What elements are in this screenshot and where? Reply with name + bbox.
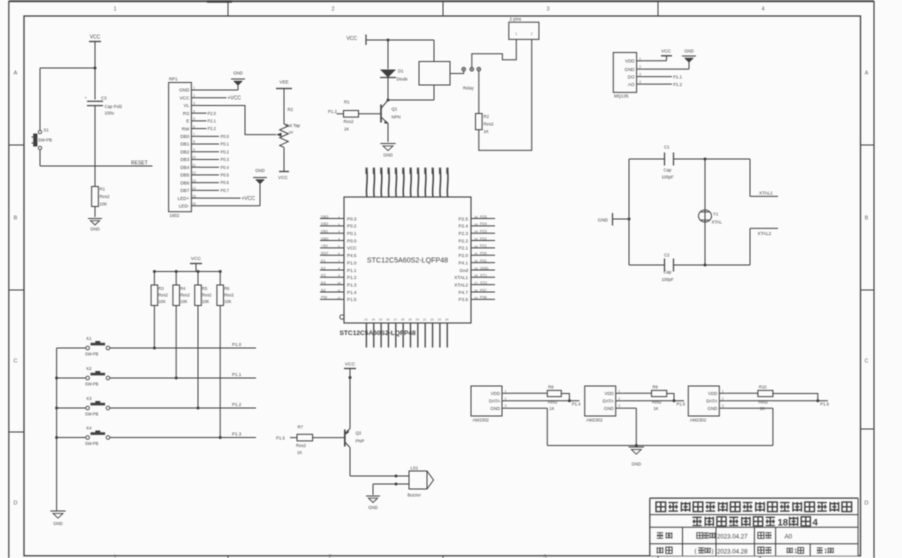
svg-text:PW: PW [321,296,328,300]
svg-text:Res2: Res2 [158,293,168,298]
left margin zone ticks [9,145,24,432]
ground (crystal) [598,213,631,226]
wire VDD to R9 [623,392,652,394]
svg-text:19: 19 [408,318,412,322]
svg-text:DB6: DB6 [180,180,189,185]
ground (LED-) [200,168,267,206]
svg-text:1: 1 [113,7,116,13]
pin XTAL1 (MCU right) [454,274,495,281]
net label P1.2 (MQ135 AO) [643,82,682,87]
wire GND drop 2 [623,408,637,445]
zone number 1 top [113,7,116,13]
pin P0.1 (MCU left) [320,230,357,237]
pin P1.1 (MCU left) [320,266,357,273]
svg-text:16: 16 [192,202,196,206]
svg-text:MQ135: MQ135 [614,94,629,99]
pin P2.0 (MCU right) [459,252,495,258]
svg-text:2: 2 [505,397,507,401]
svg-text:7: 7 [338,259,340,263]
pin top 39 (MCU) [380,168,382,198]
switch K4 SW-PB [57,426,110,447]
svg-text:1602: 1602 [170,213,180,218]
wire key left bus [55,348,58,511]
power VCC (potentiometer bottom) [278,147,289,180]
node collector junction [387,99,390,102]
zone letter C left [14,359,18,365]
svg-text:8: 8 [193,140,195,144]
svg-text:+VCC: +VCC [242,196,256,202]
svg-text:Pot Tap: Pot Tap [286,123,301,128]
ground (AM2302 rail) [629,447,644,467]
zone number 2 bottom [328,555,331,558]
svg-text:6: 6 [338,252,340,256]
cell qty label [758,547,772,553]
svg-text:SW-PB: SW-PB [85,352,99,357]
zone number 1 bottom [113,555,116,558]
svg-text:VCC: VCC [180,95,190,100]
switch S1 SW-PB [32,128,53,150]
pin 1 VDD (AM2302 3) [708,389,726,396]
pin 3 GND (AM2302 1) [490,404,509,411]
svg-text:K3: K3 [87,396,93,401]
svg-text:R4: R4 [180,286,186,291]
pin 2 DATA (AM2302 1) [489,397,509,404]
svg-text:P1.5: P1.5 [677,402,686,407]
svg-text:21: 21 [423,318,427,322]
net label P1.5 [677,402,686,407]
title block column dividers [683,527,811,556]
pin 13 DB6 (LCD header) [180,179,200,186]
svg-text:A: A [865,71,869,77]
svg-text:STC12C5A60S2-LQFP48: STC12C5A60S2-LQFP48 [340,330,417,337]
svg-text:RESET: RESET [131,161,148,167]
svg-text:P0.2: P0.2 [221,149,230,154]
svg-text:29: 29 [474,266,478,270]
net label P1.1 [232,372,242,377]
pin P2.1 (MCU right) [459,244,495,251]
svg-text:3: 3 [639,73,641,77]
cell drawn-by label [657,532,672,538]
svg-text:GND: GND [490,406,500,411]
svg-text:9: 9 [193,148,195,152]
svg-text:1: 1 [722,389,724,393]
svg-text:+VCC: +VCC [228,96,242,102]
ground (reset circuit) [88,219,102,232]
svg-text:Buzzer: Buzzer [408,493,422,498]
svg-text:NPN: NPN [392,115,401,120]
relay coil K1 [388,40,450,100]
net label P0.2 [200,149,230,154]
svg-text:DB4: DB4 [180,165,189,170]
svg-text:Res2: Res2 [344,119,355,124]
svg-text:P1.4: P1.4 [572,402,581,407]
svg-text:1K: 1K [297,450,302,455]
ground (MQ135) [643,49,696,70]
pin P4.7 (MCU right) [459,288,495,295]
cell checked-by label [657,547,672,553]
capacitor C2 Cap 100pF [629,253,750,283]
cell size label [758,532,772,538]
pin 1 VDD (MQ135) [625,57,643,64]
svg-text:P0.4: P0.4 [221,165,230,170]
pin P1.4 (MCU left) [320,288,357,295]
svg-text:SW-PB: SW-PB [85,382,99,387]
wire AM2302 ground rail [547,444,773,447]
pin XTAL2 (MCU right) [454,281,495,288]
svg-text:VEE: VEE [279,80,288,85]
pin 12 DB5 (LCD header) [180,171,200,178]
pin bottom 19 (MCU) [408,318,412,348]
net label P2.1 [200,118,217,123]
resistor R4 Res2 10K [173,285,191,306]
pin P1.5 (MCU left) [320,296,357,303]
svg-text:Y1: Y1 [713,212,719,217]
zone letter A right [865,71,869,77]
pin Gnd (MCU right) [459,266,495,273]
pin top 38 (MCU) [373,168,375,198]
svg-text:6: 6 [193,125,195,129]
svg-text:RW: RW [182,126,190,131]
svg-text:SW-PB: SW-PB [38,138,52,143]
svg-text:P2.1: P2.1 [208,118,217,123]
svg-text:E: E [186,119,189,124]
pin 3 VL (LCD header) [184,102,200,109]
right margin zone ticks [861,145,875,429]
svg-text:100pF: 100pF [662,175,675,180]
svg-text:GND: GND [90,227,100,232]
wire crystal loop left [628,159,630,265]
zone number 4 bottom [758,555,761,558]
svg-text:XTAL: XTAL [712,220,723,225]
svg-text:P41: P41 [480,259,487,263]
zone letter B left [14,216,18,222]
pin top 40 (MCU) [387,168,389,198]
pin bottom 14 (MCU) [372,318,376,348]
svg-text:XTAL1: XTAL1 [759,191,773,196]
svg-text:Cap: Cap [664,270,672,275]
svg-text:8: 8 [338,266,340,270]
svg-text:10K: 10K [100,202,108,207]
wire buzzer pin2 to ground [373,483,409,496]
svg-text:1K: 1K [289,130,294,135]
node relay VCC junction [387,39,390,42]
pin P2.2 (MCU right) [459,237,495,244]
wire R6 to key row [219,306,222,440]
svg-text:C1: C1 [664,145,670,150]
bottom margin zone ticks [228,556,658,558]
svg-text:R9: R9 [653,384,659,389]
svg-text:10K: 10K [224,299,232,304]
zone number 3 bottom [543,555,546,558]
net label P0.6 [200,180,230,185]
svg-text:R3: R3 [158,286,164,291]
wire DATA net 1 [509,400,579,402]
pin 11 DB4 (LCD header) [180,163,200,170]
svg-text:PNP: PNP [356,439,365,444]
zone letter D left [14,501,18,507]
zone number 3 top [546,7,549,13]
svg-text:P2.2: P2.2 [459,238,469,243]
svg-text:4: 4 [338,237,340,241]
svg-text:DB1: DB1 [321,230,328,234]
pin 3 DO (MQ135) [628,73,643,80]
resistor R10 Res2 [758,384,773,411]
svg-text:AM2302: AM2302 [473,418,490,423]
svg-text:S1: S1 [44,128,50,133]
svg-text:XTAL2: XTAL2 [758,231,772,236]
svg-text:P2.4: P2.4 [459,224,469,229]
svg-text:P1.5: P1.5 [276,435,285,440]
svg-text:GND: GND [632,462,642,467]
svg-text:GND: GND [684,49,694,54]
svg-text:14: 14 [372,318,376,322]
svg-text:Res2: Res2 [484,122,495,127]
svg-text:XT1: XT1 [480,274,487,278]
pin P0.3 (MCU left) [320,215,357,222]
net label XTAL1 [750,159,778,196]
svg-text:Q2: Q2 [356,431,362,436]
svg-text:VCC: VCC [346,36,357,42]
svg-text:XT2: XT2 [480,281,487,285]
power VCC (reset circuit) [89,35,101,69]
cell date 2023.04.27 [717,534,748,541]
svg-text:Relay: Relay [463,86,475,91]
pin P3.6 (MCU right) [459,296,495,303]
pin bottom 24 (MCU) [445,318,449,348]
svg-text:GND: GND [598,218,609,223]
svg-text:GND: GND [604,406,614,411]
svg-text:+5V: +5V [321,244,328,248]
pin P2.5 (MCU right) [459,215,495,222]
pin bottom 22 (MCU) [430,318,434,348]
svg-text:P2.3: P2.3 [459,231,469,236]
svg-text:1K: 1K [484,129,489,134]
svg-text:17: 17 [394,318,398,322]
pin 6 RW (LCD header) [182,125,200,132]
svg-text:1: 1 [515,32,517,36]
svg-text:R2: R2 [484,114,490,119]
label STC12C5A60S2-LQFP48 (bottom) [340,330,417,337]
svg-text:VDD: VDD [625,59,635,64]
wire key row K4 [110,437,256,439]
svg-text:Res2: Res2 [296,443,307,448]
svg-text:R2: R2 [288,107,294,112]
pin 1 VDD (AM2302 1) [491,389,509,396]
svg-text:27: 27 [474,281,478,285]
potentiometer R2 Pot Tap [276,107,301,147]
svg-text:A: A [14,71,18,77]
svg-text:2: 2 [618,397,620,401]
svg-text:DATA: DATA [706,399,717,404]
ground (Q1 emitter) [380,144,395,158]
svg-text:3: 3 [193,102,195,106]
svg-text:15: 15 [379,318,383,322]
wire +VCC (LED+) [200,196,255,202]
svg-text:DB3: DB3 [180,157,189,162]
svg-text:Q1: Q1 [392,107,398,112]
svg-text:VCC: VCC [191,256,202,262]
svg-text:P2.5: P2.5 [459,216,469,221]
svg-text:D1: D1 [398,69,404,74]
net label P0.5 [200,173,230,178]
svg-text:P0.0: P0.0 [347,238,357,243]
svg-text:4: 4 [813,518,819,529]
svg-text:R10: R10 [759,384,767,389]
power VCC (MQ135) [643,49,672,61]
wire contact to resistor R2 [478,71,480,114]
transistor Q2 PNP [345,429,365,477]
svg-text:P1.1: P1.1 [673,74,682,79]
wire DATA net 3 [726,400,828,402]
svg-text:P0.0: P0.0 [221,134,230,139]
wire coil to contact [450,71,464,74]
svg-text:36: 36 [474,215,478,219]
svg-text:11: 11 [337,288,340,292]
wire key row K1 [110,347,256,349]
svg-text:P1.2: P1.2 [232,402,242,407]
pin 7 DB0 (LCD header) [180,133,200,140]
svg-text:4: 4 [761,7,764,13]
pin 14 DB7 (LCD header) [180,187,200,194]
pin top 43 (MCU) [410,168,412,198]
net label P1.2 (relay) [328,109,337,114]
svg-text:Cap: Cap [664,168,672,173]
svg-text:VDD: VDD [604,391,613,396]
svg-text:Cap Pol2: Cap Pol2 [105,104,123,109]
switch K3 SW-PB [57,396,110,417]
svg-text:B: B [865,216,869,222]
svg-text:RS: RS [183,111,189,116]
svg-text:GND: GND [708,406,718,411]
svg-text:10K: 10K [202,299,210,304]
svg-text:P25: P25 [480,215,487,219]
svg-text:STC12C5A60S2-LQFP48: STC12C5A60S2-LQFP48 [367,257,448,265]
pin top 44 (MCU) [417,168,419,198]
svg-text:3: 3 [505,404,507,408]
svg-text:P2.0: P2.0 [459,253,469,258]
svg-text:14: 14 [192,187,196,191]
svg-text:DO: DO [628,74,635,79]
svg-text:15: 15 [192,194,196,198]
svg-text:DB1: DB1 [180,142,189,147]
switch K1 SW-PB [57,336,110,357]
ground (key bus) [50,511,65,526]
svg-text:3: 3 [618,404,620,408]
svg-text:GND: GND [368,505,378,510]
svg-text:P2.2: P2.2 [208,126,217,131]
svg-text:Gnd: Gnd [459,268,468,273]
svg-text:32: 32 [474,244,478,248]
title block frame [650,498,858,556]
wire GND drop 1 [509,408,547,445]
svg-text:2: 2 [722,397,724,401]
svg-text:XTAL1: XTAL1 [454,275,468,280]
svg-text:GND: GND [625,67,636,72]
svg-text:K3: K3 [321,274,326,278]
svg-text:Diode: Diode [397,77,409,82]
wire contact to connector pin1 [472,39,517,67]
svg-text:3: 3 [543,555,546,558]
svg-text:K4: K4 [321,281,326,285]
svg-text:R1: R1 [344,100,350,105]
svg-text:LS1: LS1 [411,466,419,471]
svg-text:C2: C2 [664,253,670,258]
svg-text:16: 16 [386,318,390,322]
net label P1.6 [820,402,829,407]
svg-text:1: 1 [505,389,507,393]
svg-text:1: 1 [193,86,195,90]
svg-text:1: 1 [338,215,340,219]
svg-text:12: 12 [192,171,196,175]
wire R3 to key row [153,306,156,350]
svg-text:B: B [14,216,18,222]
wire DATA net 2 [623,400,684,402]
pin 9 DB2 (LCD header) [180,148,200,155]
svg-text:DB5: DB5 [180,173,189,178]
svg-text:K4: K4 [87,426,93,431]
svg-text:VL: VL [184,103,190,108]
wire key row K3 [110,407,256,409]
svg-text:LED+: LED+ [178,196,190,201]
net label P0.0 [200,134,230,139]
svg-text:SW-PB: SW-PB [85,441,99,446]
wire R9 to DATA [667,394,676,403]
pin P4.1 (MCU right) [459,259,495,266]
wire +VCC (LCD pin2) [200,96,241,102]
pin 1 VDD (AM2302 2) [604,389,622,396]
pin P0.2 (MCU left) [320,222,357,229]
svg-text:VDD: VDD [708,391,717,396]
svg-text:28: 28 [474,274,478,278]
pin top 46 (MCU) [432,168,434,198]
resistor R1 Res2 1K (relay base) [337,100,382,132]
resistor R1 Res2 10K (reset) [92,166,111,217]
pin bottom 15 (MCU) [379,318,383,348]
zone number 2 top [331,7,334,13]
sensor U4 AM2302 [585,386,616,423]
svg-text:11: 11 [192,163,196,167]
resistor R8 Res2 [547,384,561,411]
svg-text:P1.2: P1.2 [328,109,337,114]
svg-text:LED-: LED- [179,204,190,209]
svg-text:5: 5 [338,244,340,248]
cell checked-by name [695,548,714,556]
svg-text:30: 30 [474,259,478,263]
pin top 42 (MCU) [402,168,404,198]
pin P1.0 (MCU left) [320,259,357,266]
svg-text:R8: R8 [548,384,554,389]
ground (buzzer) [366,496,380,510]
net label P0.4 [200,165,230,170]
svg-text:P1.0: P1.0 [232,342,242,347]
svg-text:P0.3: P0.3 [347,216,357,221]
pin P2.4 (MCU right) [459,222,495,229]
pin top 47 (MCU) [439,168,441,198]
svg-text:4: 4 [639,80,641,84]
net label P2.2 [200,126,217,131]
svg-text:P1.0: P1.0 [347,260,357,265]
svg-text:P4.5: P4.5 [347,253,357,258]
svg-text:Res2: Res2 [180,293,190,298]
svg-text:2: 2 [331,7,334,13]
buzzer LS1 [408,466,434,498]
pin bottom 23 (MCU) [438,318,442,348]
svg-text:(: ( [695,549,697,555]
pin 16 LED- (LCD header) [179,202,200,209]
svg-text:A0: A0 [785,534,793,541]
svg-text:2023.04.27: 2023.04.27 [717,534,748,541]
svg-text:31: 31 [474,252,478,256]
